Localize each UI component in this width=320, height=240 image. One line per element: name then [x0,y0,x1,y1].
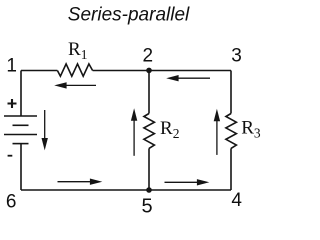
wire: right rail from node 3 down to R3 [230,71,232,114]
current arrow on bottom rail right of node 5 (rightward) [165,179,210,185]
current arrow on bottom rail left of node 5 (rightward) [58,179,103,185]
svg-text:R1: R1 [68,39,87,62]
svg-text:5: 5 [141,196,152,218]
battery B1 [4,116,37,144]
battery polarity label - [8,155,13,157]
wire: left rail from node 1 down to battery top plate [20,71,22,116]
wire: top rail from R1 through node 2 to node 3 corner [93,70,231,72]
resistor R2 [144,114,155,149]
current arrow beside R2 (upward) [131,108,137,156]
resistor R1 [57,64,92,76]
junction at node 5 [146,187,152,193]
wire: bottom rail from node 6 through node 5 to node 4 corner [21,189,231,191]
wire: top rail from node 1 corner to R1 [21,70,57,72]
svg-text:4: 4 [231,190,242,211]
battery polarity label + [8,99,17,108]
svg-text:2: 2 [143,45,154,66]
svg-text:1: 1 [6,56,17,77]
junction at node 2 [146,68,152,74]
svg-text:3: 3 [231,46,242,67]
svg-text:R3: R3 [241,117,261,140]
svg-text:R2: R2 [160,118,179,141]
wire: left rail from battery bottom plate to node 6 corner [20,144,22,190]
svg-text:6: 6 [6,192,17,213]
current arrow between node 3 and node 2 (leftward) [166,75,210,81]
wire: right rail from R3 down to node 4 [230,148,232,190]
current arrow below R1 (leftward) [54,82,96,88]
current arrow beside battery (downward) [42,110,48,150]
resistor R3 [226,114,237,149]
svg-text:Series-parallel: Series-parallel [68,4,190,25]
wire: middle branch from node 2 down to R2 [148,71,150,114]
wire: middle branch from R2 down to node 5 [148,148,150,190]
current arrow beside R3 (upward) [214,109,220,155]
